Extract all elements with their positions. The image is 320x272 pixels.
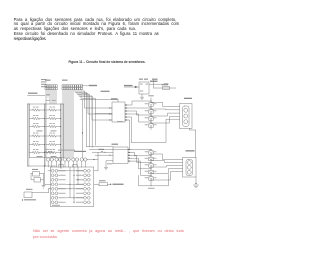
ground J1 [46,90,49,97]
label sensor row [58,150,75,151]
junction dots street2 feed [104,152,110,156]
wire fan street1 [128,101,151,122]
resistor R12 [46,149,61,154]
mcu pins row 7 [51,196,90,199]
mcu pins row 4 [51,183,90,186]
label TL1 [184,98,192,99]
wire chain2 to TL2 [151,154,183,180]
junction dots mcu [69,175,78,203]
wire TL1 down link [189,129,195,158]
led D22 street2 [145,157,157,160]
led D11 street1 [145,103,157,106]
label J3 [111,98,123,122]
ground crystal [42,186,45,189]
label U1 [74,151,86,152]
resistor R3 [30,115,46,120]
resistor R13 [162,84,170,89]
resistor R6 [46,123,61,128]
loop below street2 [139,175,169,189]
label net RB0 [101,91,110,92]
label J1 [45,80,51,81]
mcu U1 box [50,167,94,207]
label mcu bottom [52,205,60,206]
mcu pins row 2 [51,174,90,177]
bus bands [29,104,62,168]
wire top rail street1 [80,100,118,114]
sensor U8 [80,158,87,167]
crystal X1 [31,169,44,186]
resistor R5 [30,123,46,128]
net label stack [41,79,47,87]
wire mcu right out [94,152,99,184]
label +5V street2 [99,149,105,152]
resistor R1 [30,107,46,112]
net top right [152,79,176,88]
sensor U5 [55,158,62,167]
power arrow chain1 [148,95,154,101]
connector J4 street2 [113,147,131,164]
ground TL2 [193,185,198,188]
chain street2 [150,150,152,187]
led D25 street2 [145,177,157,180]
resistor R8 [46,133,61,138]
mcu pins row 5 [51,187,90,190]
wire mcu cross rows [58,171,83,198]
wire J4 ground [104,161,113,170]
resistor R9 [30,141,46,146]
caption [2,60,212,64]
wires J1 pins [46,90,56,104]
header J2 [62,85,83,90]
led D14 street1 [145,124,157,127]
traffic light TL2 [183,158,197,178]
wires J2 down [63,90,73,158]
wire stair street1 [82,91,112,158]
mcu pins row 1 [51,169,90,172]
mcu pins row 8 [51,201,90,204]
led D23 street2 [145,164,157,167]
resistor R4 [46,115,61,120]
label J2 [62,80,68,81]
traffic light TL1 [180,104,193,129]
button reset [24,189,51,198]
label U3 [139,79,148,80]
sensor U4 [47,158,54,167]
sensor U7 [72,158,79,167]
staples above mcu [59,164,77,167]
bus left module [45,104,61,168]
label left net [28,93,38,94]
wire VO [149,81,168,85]
wire mcu left stubs [45,166,52,189]
wire sensor right [87,159,98,160]
node reset [22,199,36,200]
resistor R14 [99,180,108,186]
resistor R2 [46,107,61,112]
led D13 street1 [145,117,157,120]
led D24 street2 [145,170,157,173]
wire +5V J2 [82,85,97,86]
left module box [28,104,64,166]
resistor R7 [30,133,46,138]
label rua groups [37,130,57,157]
wire J2 fan right [75,90,95,147]
wire chain1 to TL1 [132,102,180,142]
header J1 [45,85,57,90]
wire mcu verticals [70,167,78,202]
label J4 [107,144,118,165]
sensor U6 [63,158,70,167]
wire fan street2 [131,150,151,176]
regulator U3 7805 [139,82,149,94]
pin labels U3 [140,84,148,92]
mcu pins row 6 [51,192,90,195]
wire stair to street2 [87,147,114,156]
ground U3 [140,94,143,100]
resistor R10 [46,141,61,146]
wire left stubs J3 [109,107,112,120]
label TL2 [186,150,195,151]
resistor R11 [30,149,46,154]
pink note [33,229,184,233]
junction dots chain2 [150,149,151,176]
wire rails street1 [113,117,132,150]
junction dots chain1 [150,100,151,122]
resistor R15 [44,149,54,154]
wire VI [124,85,139,88]
mcu pins row 3 [51,178,90,181]
chain street1 [150,101,152,130]
wire left net [28,95,46,97]
paragraph text [14,17,177,22]
wire bottom junction [28,165,56,167]
led D12 street1 [145,110,157,113]
junction mid dot [82,132,83,133]
wire TL2 return [195,177,196,184]
wire R14 net [108,184,124,185]
led D21 street2 [145,151,157,154]
connector J3 street1 [112,102,128,122]
labels above left box [46,99,57,102]
